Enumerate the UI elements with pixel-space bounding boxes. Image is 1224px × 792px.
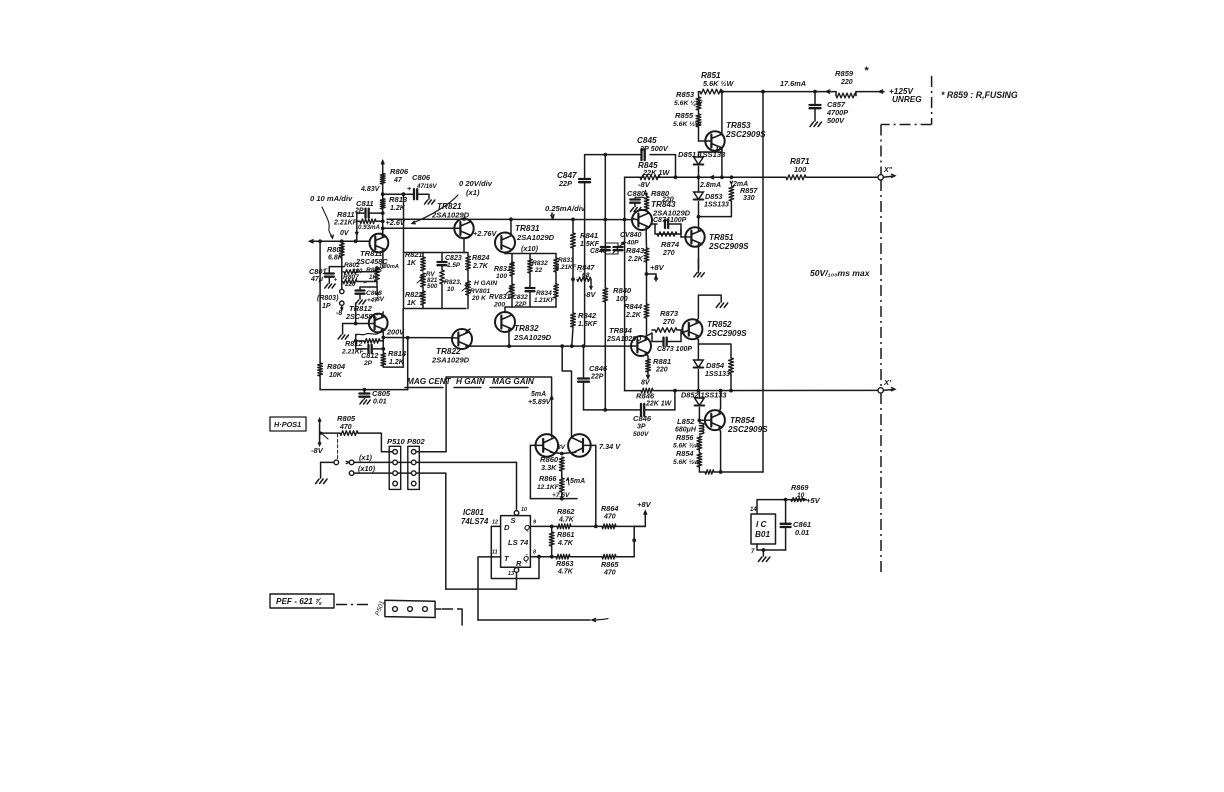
ground under C857 xyxy=(810,122,814,127)
svg-text:D852 1SS133: D852 1SS133 xyxy=(681,391,726,400)
svg-text:R824: R824 xyxy=(472,253,489,262)
wire +125V top rail xyxy=(699,91,701,93)
node X' output xyxy=(878,388,883,393)
svg-text:C880: C880 xyxy=(627,189,646,198)
svg-text:PEF - 621 ⅞: PEF - 621 ⅞ xyxy=(276,597,322,606)
svg-text:R855: R855 xyxy=(675,111,694,120)
capacitor C846 22P xyxy=(583,346,585,378)
wire base line y=218.8 xyxy=(387,218,632,220)
svg-text:200V: 200V xyxy=(386,328,405,337)
resistor R871 xyxy=(786,175,806,180)
svg-text:CV840: CV840 xyxy=(620,232,642,239)
svg-text:13: 13 xyxy=(508,571,514,577)
svg-text:1.21KF: 1.21KF xyxy=(534,297,555,304)
svg-text:100P: 100P xyxy=(670,217,687,224)
svg-text:47μ: 47μ xyxy=(310,276,324,283)
svg-text:2SC2909S: 2SC2909S xyxy=(706,329,747,338)
ground TR812 base xyxy=(342,324,344,335)
IC B01 box xyxy=(751,514,776,544)
wire T input xyxy=(478,557,501,620)
svg-text:4.7K: 4.7K xyxy=(557,540,574,547)
svg-text:500V: 500V xyxy=(827,116,845,125)
wire pair feed right xyxy=(562,346,571,437)
svg-text:R873: R873 xyxy=(660,309,679,318)
wire TR822 emitter to y=346 xyxy=(466,345,472,347)
svg-text:0 10 mA/div: 0 10 mA/div xyxy=(310,194,353,203)
svg-text:R874: R874 xyxy=(661,240,680,249)
capacitor C812 xyxy=(356,341,368,349)
svg-text:R801: R801 xyxy=(327,245,344,254)
svg-text:1SS133: 1SS133 xyxy=(705,371,730,378)
resistor R808 xyxy=(375,268,380,281)
resistor R857 xyxy=(729,186,734,201)
svg-text:R806: R806 xyxy=(390,167,409,176)
resistor R806 xyxy=(380,173,385,184)
svg-text:D: D xyxy=(504,523,510,532)
svg-text:R822: R822 xyxy=(405,290,422,299)
resistor R862 xyxy=(557,524,571,529)
svg-text:2P: 2P xyxy=(363,360,373,367)
diode D853 xyxy=(698,177,700,192)
svg-text:R814: R814 xyxy=(388,349,407,358)
svg-text:1K: 1K xyxy=(369,274,377,281)
capacitor C840 / trimmer CV840 xyxy=(601,246,610,248)
svg-text:0.01: 0.01 xyxy=(373,399,387,406)
transistor TR811 xyxy=(370,234,389,253)
svg-text:B01: B01 xyxy=(755,530,770,539)
svg-text:0 20V/div: 0 20V/div xyxy=(459,179,493,188)
diode D854 xyxy=(694,360,704,368)
pin S circle xyxy=(514,511,519,516)
capacitor C805 xyxy=(363,390,365,394)
wire pair left rail xyxy=(529,445,531,498)
svg-text:0.25mA/div: 0.25mA/div xyxy=(545,204,586,213)
svg-text:14: 14 xyxy=(750,507,757,513)
svg-text:R881: R881 xyxy=(653,357,671,366)
svg-text:5mA: 5mA xyxy=(570,478,585,485)
wire TR852 collector up to ground xyxy=(696,295,721,322)
svg-text:+: + xyxy=(407,184,412,193)
svg-text:+5.89V: +5.89V xyxy=(528,399,552,406)
svg-text:1.5KF: 1.5KF xyxy=(578,321,598,328)
svg-text:+: + xyxy=(334,277,338,284)
wire Q output y=526.4 xyxy=(530,525,557,527)
svg-text:D853: D853 xyxy=(705,192,722,201)
resistor R844 xyxy=(644,304,649,318)
wire TR851 collector to rail xyxy=(698,228,700,231)
svg-text:C874: C874 xyxy=(653,217,670,224)
resistor R840 xyxy=(603,288,608,302)
svg-text:MAG CENT: MAG CENT xyxy=(407,377,452,386)
svg-text:L852: L852 xyxy=(677,417,695,426)
svg-text:1.80mA: 1.80mA xyxy=(379,264,399,270)
resistor R831 with arrow xyxy=(510,262,515,276)
pot RV831 xyxy=(510,284,515,298)
resistor R813 xyxy=(380,199,385,209)
resistor R834 xyxy=(554,284,559,298)
svg-text:22P: 22P xyxy=(558,179,572,188)
svg-text:5.6K ½W: 5.6K ½W xyxy=(673,120,702,128)
wire R805 to P510 xyxy=(358,433,392,452)
svg-text:TR831: TR831 xyxy=(515,224,540,233)
ground above TR852 xyxy=(716,303,720,308)
dash-dot boundary top right xyxy=(931,76,933,125)
svg-text:74LS74: 74LS74 xyxy=(461,517,489,526)
svg-text:5.6K ½w: 5.6K ½w xyxy=(673,458,700,466)
svg-text:2.8mA: 2.8mA xyxy=(699,182,721,189)
svg-text:50V/₁₀₀ms max: 50V/₁₀₀ms max xyxy=(810,268,871,278)
svg-text:2P: 2P xyxy=(354,208,364,215)
diode D852 xyxy=(698,391,700,398)
svg-text:MAG GAIN: MAG GAIN xyxy=(492,377,535,386)
svg-text:3P 500V: 3P 500V xyxy=(640,144,669,153)
svg-text:R823,: R823, xyxy=(444,279,462,286)
resistor R804 xyxy=(318,363,323,376)
svg-text:12.1KF: 12.1KF xyxy=(537,484,560,491)
transistor TR831 xyxy=(495,233,515,253)
transistor TR812 xyxy=(369,314,388,333)
resistor R814 xyxy=(381,353,386,366)
resistor parallel D854 xyxy=(698,344,731,358)
svg-text:R834: R834 xyxy=(536,290,552,297)
svg-text:1P: 1P xyxy=(322,303,331,310)
svg-text:2SA1029D: 2SA1029D xyxy=(431,356,470,365)
svg-text:12: 12 xyxy=(492,520,498,526)
svg-text:7.34 V: 7.34 V xyxy=(599,442,621,451)
svg-text:1SS133: 1SS133 xyxy=(704,202,729,209)
resistor R842 xyxy=(571,313,576,327)
svg-text:1.2K: 1.2K xyxy=(389,359,405,366)
wire IC B01 top xyxy=(757,500,805,514)
svg-text:8: 8 xyxy=(533,550,536,556)
svg-text:C806: C806 xyxy=(412,173,431,182)
PEF-621 box xyxy=(270,594,334,608)
svg-text:10: 10 xyxy=(447,286,455,293)
capacitor C846 3P xyxy=(640,404,642,416)
svg-text:-8V: -8V xyxy=(584,290,596,299)
capacitor C806 xyxy=(383,193,413,195)
svg-text:(x10): (x10) xyxy=(521,244,539,253)
svg-text:(x1): (x1) xyxy=(359,453,373,462)
svg-text:TR853: TR853 xyxy=(726,121,751,130)
svg-text:2SC458C: 2SC458C xyxy=(345,312,378,321)
svg-text:I C: I C xyxy=(756,520,768,529)
wire TR854 emitter down xyxy=(719,427,721,432)
svg-text:C805: C805 xyxy=(372,389,391,398)
svg-text:17.6mA: 17.6mA xyxy=(780,79,806,88)
svg-text:R856: R856 xyxy=(676,433,694,442)
wire TR822 base xyxy=(452,337,458,339)
transistor TR832 xyxy=(495,312,515,332)
capacitor C832 xyxy=(529,273,531,288)
svg-text:2SA1029D: 2SA1029D xyxy=(513,333,552,342)
resistor R823 xyxy=(440,270,445,284)
svg-text:P510: P510 xyxy=(387,437,406,446)
ground switch xyxy=(316,479,320,484)
svg-text:R821: R821 xyxy=(405,250,422,259)
resistor R821 xyxy=(421,257,426,271)
svg-text:2.7K: 2.7K xyxy=(472,263,489,270)
resistor R865 xyxy=(602,554,616,559)
resistor R833 xyxy=(554,258,559,272)
wire TR822 base vertical xyxy=(407,338,409,390)
resistor R811 xyxy=(360,219,376,224)
wire input line y=241 xyxy=(310,240,370,242)
svg-text:22K 1W: 22K 1W xyxy=(645,401,673,408)
svg-text:X': X' xyxy=(883,378,892,387)
svg-text:+7.5V: +7.5V xyxy=(552,492,570,499)
svg-text:100: 100 xyxy=(616,296,628,303)
svg-text:+8V: +8V xyxy=(650,263,665,272)
wire bottom T line xyxy=(478,619,590,621)
wire x1 row xyxy=(354,461,517,463)
wire bottom rail y=389.6 xyxy=(320,389,408,391)
resistor R855 xyxy=(698,110,700,114)
svg-text:1.5KF: 1.5KF xyxy=(580,241,600,248)
svg-text:47: 47 xyxy=(393,177,403,184)
resistor R863 xyxy=(556,554,570,559)
svg-text:TR852: TR852 xyxy=(707,320,732,329)
x10 block xyxy=(505,253,556,255)
svg-text:+2.76V: +2.76V xyxy=(473,229,497,238)
capacitor C861 xyxy=(785,500,787,524)
resistor R812 parallel C812 xyxy=(364,339,380,344)
svg-text:R846: R846 xyxy=(636,392,655,401)
capacitor C857 xyxy=(813,90,817,94)
wire TR844 emitter xyxy=(645,353,648,356)
resistor R866 xyxy=(559,478,564,492)
svg-text:0.01: 0.01 xyxy=(795,528,809,537)
svg-text:C840: C840 xyxy=(590,248,607,255)
svg-text:R842: R842 xyxy=(578,311,597,320)
svg-text:470: 470 xyxy=(603,570,616,577)
svg-text:220: 220 xyxy=(655,367,668,374)
wire TR811 collector xyxy=(381,231,383,236)
transistor TR821 xyxy=(454,219,473,238)
pot block frame left xyxy=(404,252,467,254)
svg-text:2SA1029D: 2SA1029D xyxy=(606,336,641,343)
svg-text:D851 1SS133: D851 1SS133 xyxy=(678,150,726,159)
diode D851 xyxy=(694,157,704,165)
wire pair right collector rail xyxy=(595,445,597,526)
wire TR812 emitter squiggle xyxy=(382,312,384,316)
transistor TR853 xyxy=(705,131,724,150)
wire TR844 collector xyxy=(645,336,646,339)
transistor TR front pair right xyxy=(568,434,591,457)
svg-text:2.2K: 2.2K xyxy=(627,256,644,263)
transistor TR843 xyxy=(632,210,652,230)
svg-text:−: − xyxy=(363,280,367,287)
wire +7.5V bottom xyxy=(530,498,577,500)
resistor R847 xyxy=(577,277,591,281)
rail x=605.3 C840/R840 xyxy=(604,155,606,247)
wire R pin loop xyxy=(446,572,517,589)
wire row1 up to MAG CENT xyxy=(416,451,446,453)
svg-text:−: − xyxy=(324,266,328,273)
svg-text:22K 1W: 22K 1W xyxy=(642,168,670,177)
ground TR851 emitter area xyxy=(694,273,697,277)
svg-text:-8V: -8V xyxy=(311,446,324,455)
svg-text:C823: C823 xyxy=(445,255,462,262)
node X'' output xyxy=(878,175,883,180)
wire TR832 emitter to y=346 xyxy=(508,329,510,346)
inductor L852 xyxy=(699,423,704,434)
svg-text:R811: R811 xyxy=(337,210,355,219)
svg-text:500V: 500V xyxy=(633,431,649,438)
rail x=403.5 left xyxy=(403,194,405,252)
pot RV801 H GAIN xyxy=(466,281,471,295)
svg-text:1.5P: 1.5P xyxy=(447,262,461,269)
svg-text:4.83V: 4.83V xyxy=(360,186,381,193)
svg-text:270: 270 xyxy=(662,250,675,257)
wire TR853 collector xyxy=(721,92,723,135)
svg-text:C832: C832 xyxy=(512,294,528,301)
svg-text:TR851: TR851 xyxy=(709,233,734,242)
wire pair bases xyxy=(530,444,543,446)
svg-text:R: R xyxy=(516,559,522,568)
svg-text:22P: 22P xyxy=(514,301,527,308)
svg-text:8V: 8V xyxy=(641,380,651,387)
svg-text:3P: 3P xyxy=(637,424,646,431)
resistor R802 xyxy=(344,270,358,274)
resistor R801 xyxy=(339,243,344,257)
svg-text:5.6K ¼W: 5.6K ¼W xyxy=(674,100,703,107)
wire pair feed left xyxy=(446,377,551,437)
svg-text:R857: R857 xyxy=(740,186,758,195)
svg-text:270: 270 xyxy=(662,319,675,326)
svg-text:R843: R843 xyxy=(626,246,645,255)
svg-text:Q: Q xyxy=(524,523,530,532)
svg-text:-8: -8 xyxy=(336,310,342,317)
svg-text:H GAIN: H GAIN xyxy=(456,377,486,386)
dash-dot below X' xyxy=(880,393,882,572)
resistor R851 xyxy=(700,89,722,94)
transistor TR822 xyxy=(452,329,472,349)
svg-text:R859: R859 xyxy=(835,69,854,78)
dash-dot to P501 xyxy=(336,604,372,606)
svg-text:RV801: RV801 xyxy=(470,288,490,295)
svg-text:RV831: RV831 xyxy=(489,294,511,301)
wire X' line xyxy=(625,390,642,392)
svg-text:2SC2909S: 2SC2909S xyxy=(725,130,766,139)
H-POS1 box xyxy=(270,417,306,431)
svg-text:R862: R862 xyxy=(557,507,574,516)
wire +8V right ladder xyxy=(633,526,635,556)
svg-text:10K: 10K xyxy=(329,372,343,379)
dashed wire pot to switch xyxy=(337,434,339,461)
svg-text:2SC2909S: 2SC2909S xyxy=(708,242,749,251)
transistor TR854 xyxy=(705,410,725,430)
svg-text:H·POS1: H·POS1 xyxy=(274,420,301,429)
svg-text:*: * xyxy=(864,65,869,77)
svg-text:H GAIN: H GAIN xyxy=(474,280,497,287)
svg-text:22: 22 xyxy=(534,267,543,274)
wire TR851 base xyxy=(681,236,691,238)
resistor R860 xyxy=(559,457,564,471)
wire Qbar output y=556.7 xyxy=(530,556,556,558)
wire TR854 collector up xyxy=(719,408,721,413)
svg-text:2SC2909S: 2SC2909S xyxy=(727,425,768,434)
switch x1/x10 xyxy=(321,461,334,463)
svg-text:220: 220 xyxy=(840,79,853,86)
wire TR851 emitter to ground xyxy=(698,244,700,269)
svg-text:4.7K: 4.7K xyxy=(557,569,574,576)
svg-text:(x10): (x10) xyxy=(358,464,376,473)
svg-text:D854: D854 xyxy=(706,361,725,370)
wire TR821 bottom xyxy=(463,238,465,252)
pin R circle xyxy=(514,568,519,573)
wire TR811 emitter xyxy=(381,250,384,253)
svg-text:220: 220 xyxy=(344,281,356,288)
svg-text:2.21KF: 2.21KF xyxy=(333,220,358,227)
wire bottom of output stage xyxy=(699,471,705,473)
capacitor C811 xyxy=(357,212,365,214)
svg-text:IC801: IC801 xyxy=(463,508,484,517)
rail x=646.5 TR843 collector chain xyxy=(645,227,647,248)
svg-text:R813: R813 xyxy=(389,195,408,204)
svg-text:5mA: 5mA xyxy=(531,391,546,398)
svg-text:R804: R804 xyxy=(327,362,346,371)
svg-text:R863: R863 xyxy=(556,559,573,568)
svg-text:100: 100 xyxy=(794,165,806,174)
svg-text:11: 11 xyxy=(492,550,498,556)
svg-text:TR844: TR844 xyxy=(609,326,633,335)
svg-text:5.6K ½W: 5.6K ½W xyxy=(703,79,735,88)
svg-text:R844: R844 xyxy=(624,302,643,311)
resistor R846 in line xyxy=(641,388,653,393)
LS74 box xyxy=(501,516,531,568)
svg-text:+8V: +8V xyxy=(637,500,652,509)
left rail x=320 xyxy=(319,241,321,363)
svg-text:200: 200 xyxy=(493,302,505,309)
rail x=624.5 R845 left leg xyxy=(624,177,626,390)
resistor R869 xyxy=(791,498,803,502)
svg-text:220: 220 xyxy=(661,197,674,204)
resistor R805 xyxy=(324,432,341,434)
resistor R807 xyxy=(342,272,343,282)
svg-text:P802: P802 xyxy=(407,437,426,446)
capacitor C823 xyxy=(441,253,443,263)
rail x=573 R841/R842 xyxy=(572,219,574,233)
wire emitter bias node xyxy=(329,266,342,268)
svg-text:R841: R841 xyxy=(580,231,598,240)
resistor R822 xyxy=(421,291,426,305)
pot RV821 xyxy=(421,273,426,287)
transistor TR front pair left xyxy=(536,434,559,457)
svg-text:20 K: 20 K xyxy=(471,295,487,302)
ground under C801 xyxy=(325,284,328,288)
svg-text:R853: R853 xyxy=(676,90,695,99)
svg-text:470: 470 xyxy=(339,424,352,431)
svg-text:2SA1029D: 2SA1029D xyxy=(516,233,555,242)
wire D loop to Qbar xyxy=(491,526,539,578)
svg-text:UNREG: UNREG xyxy=(892,95,922,104)
wire TR853 emitter xyxy=(721,148,723,152)
svg-text:R807: R807 xyxy=(343,274,359,281)
svg-text:10: 10 xyxy=(521,507,527,513)
capacitor C847 xyxy=(579,178,590,180)
svg-text:R812: R812 xyxy=(345,339,362,348)
rail right vertical x=763 xyxy=(762,92,764,472)
wire pair emitters common xyxy=(550,452,561,453)
svg-text:8V: 8V xyxy=(557,444,566,451)
potentiometer H POS xyxy=(319,420,321,445)
svg-text:Q̄: Q̄ xyxy=(523,554,529,563)
wire TR852 emitter down xyxy=(696,336,698,360)
svg-text:R869: R869 xyxy=(791,483,809,492)
svg-text:R865: R865 xyxy=(601,560,619,569)
resistor R859 xyxy=(836,93,856,98)
